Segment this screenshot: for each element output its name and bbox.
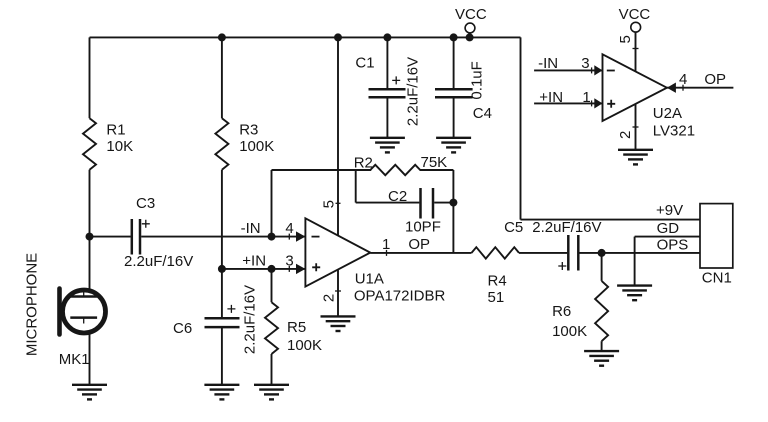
- svg-text:R3: R3: [239, 122, 258, 139]
- wire GD vertical crossing OPS: [634, 237, 636, 286]
- wire C4 top lead: [453, 37, 455, 89]
- ground C4: [436, 138, 471, 153]
- svg-text:51: 51: [488, 289, 505, 306]
- svg-text:100K: 100K: [239, 138, 274, 155]
- wire C3 left lead: [90, 236, 131, 238]
- svg-text:R2: R2: [354, 155, 373, 172]
- svg-text:U1A: U1A: [355, 271, 384, 288]
- wire C4 bottom lead: [453, 97, 455, 138]
- wire R2 right lead: [420, 169, 454, 171]
- wire R5 bottom lead: [271, 354, 273, 385]
- wire C6 top lead: [221, 269, 223, 318]
- svg-text:LV321: LV321: [653, 123, 695, 140]
- resistor R6: [595, 281, 608, 341]
- capacitor C4: [435, 88, 473, 91]
- node junction C4 top rail: [450, 33, 458, 41]
- svg-text:U2A: U2A: [653, 105, 682, 122]
- svg-text:2: 2: [321, 294, 338, 302]
- svg-text:R4: R4: [488, 273, 507, 290]
- plus sign U2A: [607, 100, 615, 108]
- wire U1A pin 5: [337, 37, 339, 235]
- wire feedback right vertical to output: [452, 170, 454, 253]
- wire U2A pin 5: [635, 32, 637, 71]
- node junction R3/C6/+IN: [218, 265, 226, 273]
- svg-text:+IN: +IN: [539, 89, 563, 106]
- wire C2 right lead: [434, 202, 453, 204]
- wire R6 top lead: [601, 253, 603, 281]
- capacitor C5: [567, 235, 570, 271]
- ground U2A pin2: [618, 150, 653, 165]
- wire U2A pin 2: [635, 104, 637, 150]
- resistor R5: [265, 302, 278, 354]
- svg-text:2.2uF/16V: 2.2uF/16V: [124, 253, 193, 270]
- resistor R3: [215, 118, 228, 170]
- pin 1 arrowhead U2A: [594, 98, 602, 108]
- wire C1 bottom lead: [386, 97, 388, 138]
- wire C2 left lead: [356, 202, 420, 204]
- pin 4 arrowhead U2A output: [667, 83, 676, 93]
- svg-text:MICROPHONE: MICROPHONE: [24, 253, 41, 356]
- svg-text:R6: R6: [552, 303, 571, 320]
- svg-text:2: 2: [617, 131, 634, 139]
- wire R1 top lead: [89, 37, 91, 118]
- wire R2 left lead: [272, 169, 372, 171]
- svg-text:C5: C5: [504, 219, 523, 236]
- connector CN1: [700, 204, 733, 268]
- svg-text:-IN: -IN: [241, 220, 261, 237]
- svg-text:-IN: -IN: [538, 55, 558, 72]
- wire U1A pin 2: [337, 270, 339, 317]
- resistor R4: [472, 247, 520, 258]
- minus sign U1A: [312, 236, 320, 238]
- wire R1 bottom lead: [89, 170, 91, 237]
- wire MK1 top lead: [89, 237, 91, 291]
- node junction VCC top rail: [466, 33, 474, 41]
- ground C6: [204, 385, 239, 400]
- wire R3 bottom lead crossing -IN: [221, 170, 223, 269]
- ground MK1: [72, 385, 107, 400]
- wire MK1 bottom lead: [89, 332, 91, 385]
- capacitor C2: [419, 188, 422, 219]
- svg-text:R1: R1: [106, 122, 125, 139]
- svg-text:OP: OP: [408, 236, 430, 253]
- svg-text:C1: C1: [355, 55, 374, 72]
- wire U1A output to R4: [370, 252, 471, 254]
- svg-text:10K: 10K: [106, 138, 133, 155]
- wire feedback left vertical: [271, 170, 273, 237]
- capacitor C6: [205, 317, 240, 320]
- svg-text:+9V: +9V: [656, 202, 683, 219]
- pin 3 arrowhead U2A: [594, 65, 602, 75]
- svg-text:CN1: CN1: [702, 270, 732, 287]
- wire U2A output: [667, 87, 734, 89]
- op-amp U1A: [305, 218, 370, 286]
- ground C1: [370, 138, 405, 153]
- ground R5: [254, 385, 289, 400]
- svg-text:+IN: +IN: [242, 253, 266, 270]
- svg-text:2.2uF/16V: 2.2uF/16V: [532, 219, 601, 236]
- microphone MK1: [60, 289, 106, 335]
- plus sign U1A: [312, 263, 320, 271]
- capacitor C3: [131, 219, 134, 255]
- svg-text:0.1uF: 0.1uF: [469, 61, 486, 99]
- ground GD: [617, 286, 652, 301]
- pin 3 arrowhead: [296, 264, 305, 274]
- wire top rail: [90, 36, 521, 38]
- resistor R1: [83, 118, 96, 170]
- wire VCC-to-CN1 vertical: [520, 37, 522, 219]
- node junction feedback tap on -IN: [268, 233, 276, 241]
- svg-text:C2: C2: [388, 188, 407, 205]
- power VCC U2A: [631, 22, 641, 32]
- svg-text:C4: C4: [473, 105, 492, 122]
- svg-text:OP: OP: [704, 71, 726, 88]
- node junction C1 top rail: [383, 33, 391, 41]
- minus sign U2A: [607, 70, 615, 72]
- svg-text:2.2uF/16V: 2.2uF/16V: [405, 57, 422, 126]
- wire U2A +IN input: [534, 102, 602, 104]
- svg-text:VCC: VCC: [619, 6, 651, 23]
- ground U1A pin2: [321, 316, 356, 331]
- svg-text:100K: 100K: [287, 337, 322, 354]
- wire C2 left vertical: [355, 170, 357, 203]
- node junction R6 tap: [598, 249, 606, 257]
- svg-text:3: 3: [581, 55, 589, 72]
- svg-text:OPS: OPS: [657, 237, 689, 254]
- wire C1 top lead: [386, 37, 388, 89]
- node junction U1A pin5 top rail: [334, 33, 342, 41]
- wire R5 top lead: [271, 269, 273, 302]
- wire +IN line to U1A pin3: [222, 268, 306, 270]
- svg-text:5: 5: [617, 35, 634, 43]
- wire R3 top lead: [221, 37, 223, 118]
- power VCC main: [465, 23, 475, 33]
- svg-text:100K: 100K: [552, 323, 587, 340]
- svg-text:C3: C3: [136, 195, 155, 212]
- node junction R5 tap on +IN: [268, 265, 276, 273]
- ground R6: [584, 351, 619, 366]
- svg-text:2.2uF/16V: 2.2uF/16V: [242, 285, 259, 354]
- wire GD horizontal to CN1: [635, 236, 700, 238]
- node junction R1/C3/MK1: [86, 233, 94, 241]
- node junction R3 top rail: [218, 33, 226, 41]
- svg-text:MK1: MK1: [59, 351, 90, 368]
- wire R6 bottom lead: [601, 341, 603, 351]
- resistor R2: [370, 165, 420, 175]
- node junction C2/feedback: [449, 199, 457, 207]
- svg-text:OPA172IDBR: OPA172IDBR: [354, 288, 446, 305]
- svg-text:R5: R5: [287, 319, 306, 336]
- wire -IN line C3 to U1A pin4: [141, 236, 305, 238]
- wire C6 bottom lead: [221, 327, 223, 385]
- svg-text:VCC: VCC: [455, 6, 487, 23]
- svg-text:C6: C6: [173, 320, 192, 337]
- op-amp U2A: [603, 54, 667, 121]
- svg-text:1: 1: [582, 89, 590, 106]
- wire U2A -IN input: [534, 69, 602, 71]
- capacitor C1: [369, 88, 406, 91]
- svg-text:GD: GD: [657, 220, 680, 237]
- pin 4 arrowhead: [296, 231, 305, 241]
- wire +9V horizontal to CN1: [521, 219, 701, 221]
- svg-text:5: 5: [321, 200, 338, 208]
- wire R4 to C5: [519, 252, 567, 254]
- svg-text:75K: 75K: [421, 154, 448, 171]
- svg-text:10PF: 10PF: [405, 219, 441, 236]
- wire C5 to CN1 OPS: [580, 252, 701, 254]
